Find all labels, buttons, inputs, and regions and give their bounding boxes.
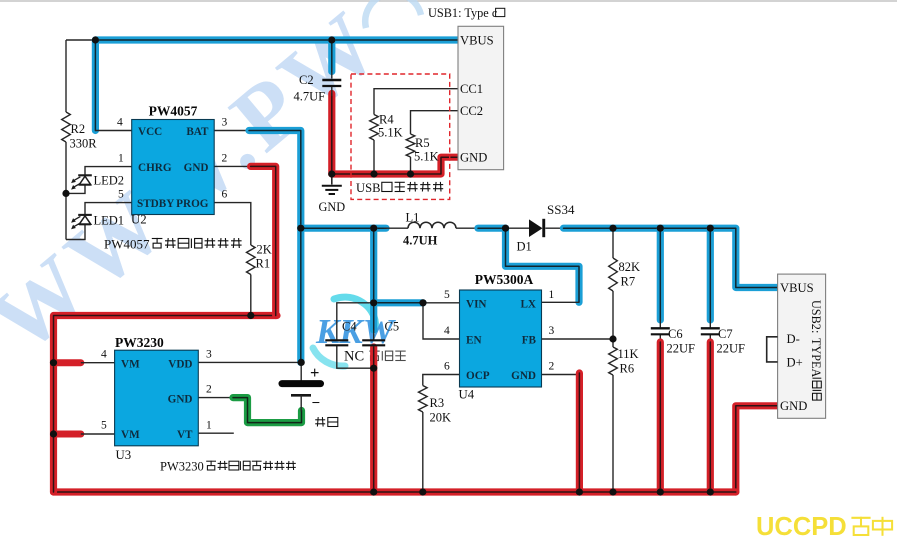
svg-text:R2: R2: [71, 122, 86, 136]
svg-text:5: 5: [118, 189, 124, 201]
wire: R2 top lead to VBUS rail: [66, 39, 96, 41]
svg-text:5.1K: 5.1K: [378, 126, 403, 140]
junction ground rail / C7: [707, 488, 714, 495]
svg-text:STDBY: STDBY: [137, 198, 174, 210]
svg-text:GND: GND: [780, 399, 807, 413]
resistor R7: [609, 258, 640, 291]
wire: C5 stub (blue): [370, 303, 377, 340]
resistor R2: [62, 112, 98, 151]
svg-text:2K: 2K: [257, 243, 272, 257]
junction ground rail / U4 GND: [576, 488, 583, 495]
svg-text:CC2: CC2: [460, 104, 483, 118]
svg-text:SS34: SS34: [547, 202, 575, 217]
svg-text:2: 2: [549, 361, 555, 373]
dashed box: USB comm resistors: [351, 74, 450, 199]
svg-text:C7: C7: [718, 327, 733, 341]
op IC U4 PW5300A: [459, 272, 542, 402]
junction VIN node / EN: [419, 299, 426, 306]
svg-text:D-: D-: [787, 332, 800, 346]
label UCCPD forum (yellow): [756, 513, 892, 541]
wire: BAT net to battery (blue): [249, 131, 301, 363]
wire: LX elbow (blue): [506, 228, 580, 302]
inductor L1: [403, 211, 456, 248]
wire: VM pin5 stub (red): [54, 431, 115, 438]
wire: L1 to D1 anode (blue): [478, 225, 506, 232]
wire: C2 to GND net (red): [328, 87, 335, 174]
LED1: [71, 214, 124, 230]
svg-text:6: 6: [222, 189, 228, 201]
svg-text:PW5300A: PW5300A: [475, 272, 534, 287]
svg-text:22UF: 22UF: [667, 342, 696, 356]
connector USB1 Type-C: [458, 26, 504, 169]
svg-text:GND: GND: [318, 200, 345, 214]
junction ground rail / R6: [609, 488, 616, 495]
resistor R1: [247, 243, 272, 275]
label USB comm resistors: [356, 181, 443, 195]
svg-text:2: 2: [222, 153, 228, 165]
junction left rail / VM4: [50, 359, 57, 366]
label U3 circuit name: [160, 460, 296, 474]
wire: R7/R6 column: [612, 228, 614, 492]
junction ground rail / C5: [370, 488, 377, 495]
svg-text:R3: R3: [430, 396, 445, 410]
wire: EN to VIN node: [423, 303, 460, 339]
svg-text:R7: R7: [621, 275, 636, 289]
wire: C7 drop (blue): [707, 228, 714, 327]
junction ground bus / R5: [407, 170, 414, 177]
svg-text:4.7UH: 4.7UH: [403, 234, 438, 248]
resistor R4: [370, 113, 403, 141]
junction LED rail: [62, 190, 69, 197]
wire: STDBY to LED1: [66, 203, 132, 240]
svg-text:GND: GND: [184, 162, 209, 174]
wire: VBUS top rail (blue): [95, 36, 458, 43]
svg-text:U4: U4: [459, 388, 475, 402]
label NC: [344, 349, 364, 365]
resistor R6: [609, 347, 639, 376]
svg-text:5: 5: [444, 289, 450, 301]
junction ground rail / R3: [419, 488, 426, 495]
capacitor C2: [294, 73, 342, 104]
svg-text:3: 3: [206, 349, 212, 361]
svg-text:1: 1: [549, 289, 555, 301]
svg-text:LX: LX: [520, 298, 536, 310]
svg-text:20K: 20K: [430, 411, 452, 425]
top border line: [0, 0, 897, 2]
wire: BAT net branch to L1 (blue): [301, 225, 386, 232]
wire: U3 GND lead: [198, 397, 235, 399]
label USB1 title: [428, 6, 505, 20]
svg-text:VM: VM: [121, 358, 140, 370]
wire: L1 leads: [384, 227, 479, 229]
junction left rail / VM5: [50, 430, 57, 437]
wire: left LED rail: [65, 40, 67, 240]
wire: C2 drop from rail (blue): [328, 40, 335, 79]
svg-text:USB1: Type c: USB1: Type c: [428, 6, 498, 20]
svg-text:VT: VT: [177, 429, 193, 441]
junction VIN node / C5: [370, 299, 377, 306]
wire: VIN feed (blue): [374, 228, 460, 303]
junction BAT net / L1 branch: [297, 225, 304, 232]
svg-text:U2: U2: [131, 213, 147, 227]
junction R1 / ground: [247, 312, 254, 319]
op IC U3 PW3230: [115, 335, 199, 462]
op IC U2 PW4057: [131, 104, 214, 227]
svg-text:PW4057: PW4057: [104, 237, 150, 252]
LED2: [71, 174, 124, 190]
svg-text:EN: EN: [466, 335, 482, 347]
svg-text:UCCPD: UCCPD: [756, 513, 847, 541]
svg-text:CHRG: CHRG: [138, 162, 172, 174]
svg-text:3: 3: [549, 325, 555, 337]
svg-text:OCP: OCP: [466, 370, 490, 382]
svg-text:R6: R6: [620, 362, 635, 376]
svg-text:R5: R5: [415, 136, 430, 150]
junction ground rail / C6: [657, 488, 664, 495]
junction output rail / C7: [707, 225, 714, 232]
junction C4 loop / ground: [370, 365, 377, 372]
wire: OCP to R3: [423, 375, 460, 493]
junction FB divider: [609, 335, 616, 342]
capacitor C5: [362, 320, 399, 346]
svg-text:D1: D1: [517, 240, 532, 254]
svg-text:1: 1: [206, 420, 212, 432]
junction VBUS rail / VCC: [92, 36, 99, 43]
svg-text:PW3230: PW3230: [115, 335, 164, 350]
svg-text:PROG: PROG: [176, 198, 209, 210]
label U2 circuit name: [104, 237, 242, 252]
D+/D- bracket: [767, 337, 778, 362]
wire: VBUS2 output rail (blue): [564, 228, 778, 287]
wire: C7 to ground rail (red): [709, 334, 711, 492]
svg-text:CC1: CC1: [460, 82, 483, 96]
wire: CHRG to LED2: [66, 167, 132, 194]
wire: CC2 to R5: [411, 111, 459, 174]
wire: VDD to battery node: [198, 361, 301, 363]
battery BT1: [282, 362, 338, 426]
pin numbers U2: [117, 117, 228, 201]
watermark: [0, 0, 421, 372]
resistor R3: [419, 386, 452, 425]
pin numbers U4: [444, 289, 555, 373]
wire: FB to divider: [542, 338, 614, 340]
svg-text:2: 2: [206, 384, 212, 396]
svg-text:4.7UF: 4.7UF: [294, 90, 326, 104]
svg-text:C6: C6: [668, 327, 683, 341]
svg-text:C5: C5: [385, 320, 400, 334]
svg-text:4: 4: [444, 325, 450, 337]
junction D1 anode / LX: [502, 225, 509, 232]
junction L1 / VIN branch: [370, 225, 377, 232]
svg-text:GND: GND: [460, 151, 487, 165]
svg-text::: :: [809, 330, 823, 333]
svg-text:GND: GND: [511, 370, 536, 382]
junction ground bus / C2: [328, 170, 335, 177]
svg-text:BAT: BAT: [186, 126, 209, 138]
svg-text:TYPEA: TYPEA: [809, 338, 823, 377]
wire: VM pin4 stub (red): [54, 359, 115, 366]
svg-text:VIN: VIN: [466, 298, 487, 310]
svg-text:1: 1: [118, 153, 124, 165]
wire: battery negative link (green): [233, 398, 302, 423]
svg-text:FB: FB: [522, 335, 537, 347]
svg-text:+: +: [310, 363, 319, 382]
junction output rail / C6: [657, 225, 664, 232]
svg-text:5.1K: 5.1K: [414, 150, 439, 164]
svg-text:VDD: VDD: [168, 358, 192, 370]
wire: C6 to ground rail (red): [659, 334, 661, 492]
wire: C5 to ground rail (red): [370, 347, 377, 492]
svg-text:NC: NC: [344, 349, 364, 365]
ground symbol GND: [318, 174, 345, 214]
junction ground bus / R4: [370, 170, 377, 177]
svg-text:22UF: 22UF: [717, 342, 746, 356]
wire: BAT pin lead: [214, 130, 250, 132]
capacitor C6: [651, 327, 695, 356]
wire: C6 drop (blue): [657, 228, 664, 327]
svg-text:LED2: LED2: [94, 174, 125, 188]
wire: PROG to R1: [214, 203, 251, 316]
resistor R5: [406, 134, 438, 164]
wire: U2 GND drop (red): [214, 166, 276, 315]
svg-text:C2: C2: [299, 73, 314, 87]
svg-text:VBUS: VBUS: [460, 34, 494, 48]
svg-text:4: 4: [101, 349, 107, 361]
svg-text:−: −: [312, 396, 321, 412]
svg-text:U3: U3: [116, 448, 132, 462]
svg-text:6: 6: [444, 361, 450, 373]
svg-text:C4: C4: [342, 320, 357, 334]
svg-text:LED1: LED1: [94, 214, 125, 228]
wire: U4 GND to ground rail (red): [542, 373, 580, 492]
capacitor C7: [701, 327, 745, 356]
wire: C4 loop: [337, 303, 374, 368]
wire: left ground rail (red): [54, 316, 278, 493]
svg-text:USB: USB: [356, 181, 381, 195]
wire: CC1 to R4: [374, 89, 458, 174]
svg-text:D+: D+: [787, 356, 803, 370]
wire: bottom ground rail (red): [54, 488, 736, 495]
wire: USB1 GND to ground bus (red): [332, 157, 458, 174]
wire: D1 leads: [506, 227, 565, 229]
svg-text:11K: 11K: [618, 347, 639, 361]
svg-text:5: 5: [101, 420, 107, 432]
svg-text:R4: R4: [379, 113, 394, 127]
svg-text:USB2: USB2: [809, 300, 823, 330]
svg-text:3: 3: [222, 117, 228, 129]
svg-text:82K: 82K: [619, 260, 641, 274]
svg-text:VCC: VCC: [138, 126, 162, 138]
capacitor C4: [325, 320, 357, 346]
svg-text:VBUS: VBUS: [780, 281, 814, 295]
svg-text:R1: R1: [256, 257, 271, 271]
svg-text:PW4057: PW4057: [149, 104, 198, 119]
wire: VT lead: [198, 432, 234, 434]
junction output rail / R7: [609, 225, 616, 232]
svg-text:L1: L1: [406, 211, 420, 225]
pin numbers U3: [101, 349, 212, 432]
svg-text:GND: GND: [168, 393, 193, 405]
junction VBUS rail / C2: [328, 36, 335, 43]
wire: VCC drop from rail (blue): [95, 40, 131, 131]
svg-text:PW3230: PW3230: [160, 460, 204, 474]
connector USB2 Type-A: [778, 274, 826, 418]
svg-text:4: 4: [117, 117, 123, 129]
junction VDD / battery: [298, 359, 305, 366]
wire: ground rail to USB2 GND (red): [736, 406, 778, 492]
svg-text:VM: VM: [121, 429, 140, 441]
KKW watermark logo: [313, 297, 406, 366]
diode D1 SS34: [517, 202, 575, 254]
svg-text:330R: 330R: [70, 137, 98, 151]
